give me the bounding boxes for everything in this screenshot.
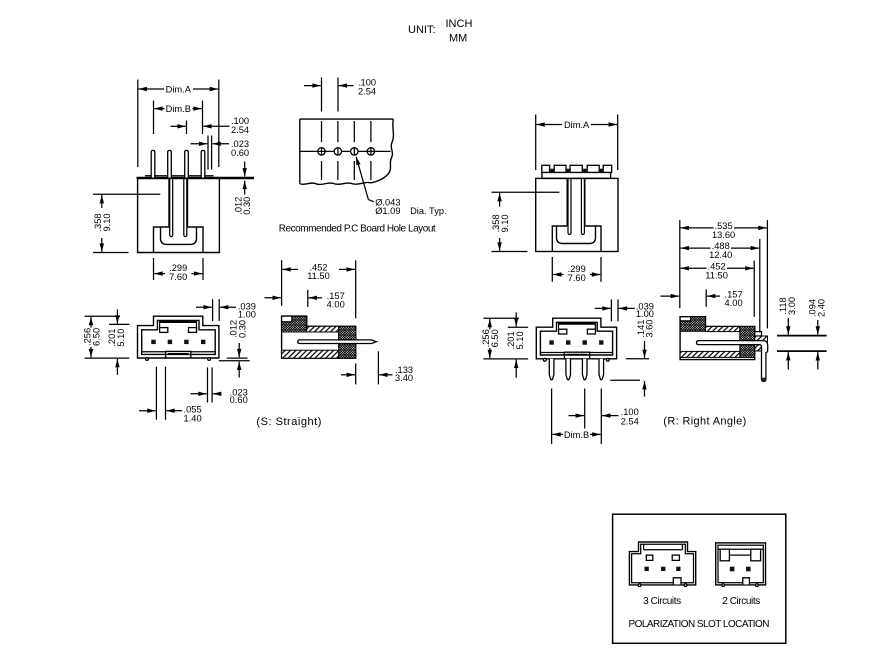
pin top square 4 [600, 169, 603, 173]
inner pin tip right [184, 179, 187, 236]
hole 2 [334, 148, 341, 155]
svg-text:11.50: 11.50 [307, 271, 330, 281]
dimension .012 extension lines right [227, 357, 248, 359]
contact pin 1 (black square) [549, 340, 553, 344]
3 circuits connector outer [629, 542, 695, 585]
svg-text:INCH: INCH [446, 18, 473, 30]
svg-text:UNIT:: UNIT: [408, 24, 436, 36]
bottom wall hatch [282, 350, 339, 358]
S section body outline [282, 316, 356, 358]
dimension .256 6.50 [90, 317, 92, 328]
dimension .256 extension lines [85, 315, 120, 317]
PCB board torn right edge [377, 119, 394, 181]
R side extension line lead outer [766, 220, 768, 328]
contact pin 4 [201, 340, 205, 344]
left block hatch [680, 317, 705, 332]
inner pin tip left [568, 178, 571, 234]
small tab right [755, 332, 762, 336]
left block hatch [282, 316, 307, 332]
PCB board torn bottom edge [300, 181, 377, 184]
3 circuits raised inner lines [644, 549, 683, 551]
svg-text:(R: Right Angle): (R: Right Angle) [663, 416, 746, 428]
3 circuits pin 2 [661, 567, 665, 571]
svg-text:Dim.A: Dim.A [166, 84, 192, 94]
lead centerline 4 [600, 389, 602, 445]
inner slot wall right [584, 178, 586, 226]
top strip [542, 172, 611, 178]
svg-text:3.60: 3.60 [645, 320, 655, 338]
polarization notch tab right [587, 329, 595, 334]
dimension .157 4.00 [309, 297, 323, 299]
svg-text:MM: MM [449, 33, 467, 45]
polarization slot top inner edge [159, 321, 197, 323]
R front view inner outline [540, 322, 612, 355]
3 circuits connector inner [632, 544, 694, 583]
polarization notch tab left [160, 328, 168, 333]
dimension .201 extension line [109, 323, 129, 325]
bottom notch outline [552, 226, 601, 252]
svg-text:Ø1.09: Ø1.09 [375, 206, 400, 216]
dimension .023 0.60 [191, 393, 207, 395]
straight pin [298, 340, 377, 344]
elbow hatch [755, 336, 768, 351]
svg-text:7.60: 7.60 [568, 273, 586, 283]
svg-text:9.10: 9.10 [500, 214, 510, 232]
hole 1 [318, 148, 325, 155]
dimension .039 1.00 [196, 306, 212, 308]
2 circuits cavity middle line [729, 554, 750, 556]
dimension .488 12.40 [681, 247, 711, 249]
lead centerline 3 [584, 389, 586, 429]
dimension .157 extension line [705, 289, 707, 306]
hole centerline vertical 3 [353, 121, 355, 142]
dimension .100 2.54 [569, 415, 585, 417]
inner slot wall right [187, 179, 189, 227]
bottom U-shaped slot [161, 227, 197, 244]
dimension .118 3.00 arrows [787, 318, 789, 335]
dimension .133 extension lines [355, 364, 357, 385]
right block hatch [740, 327, 755, 358]
dimension Dim.B bottom [552, 433, 563, 435]
polarization slot top inner edge [558, 323, 596, 325]
castellation bump 2 [554, 165, 566, 172]
PCB reference line top [777, 335, 827, 337]
dimension Dim.A extension lines [535, 115, 537, 171]
svg-text:1.00: 1.00 [238, 309, 256, 319]
pin 4 [201, 150, 205, 177]
inner pin tip right [581, 178, 584, 234]
svg-text:3.40: 3.40 [395, 373, 413, 383]
2 circuits bump left [722, 584, 725, 587]
contact pin 3 [184, 340, 188, 344]
dimension .256 extension lines [483, 317, 519, 319]
svg-text:Dim.A: Dim.A [564, 120, 590, 130]
dimension .358 extension lines [93, 193, 160, 195]
2 circuits inner top line [718, 548, 763, 550]
dimension Dim.B extension lines [153, 101, 155, 135]
pin 3 [185, 150, 189, 177]
svg-text:0.60: 0.60 [231, 148, 249, 158]
leader line from hole 3 [356, 157, 368, 200]
svg-text:1.00: 1.00 [636, 309, 654, 319]
polarization box frame [613, 514, 786, 643]
bump left [146, 358, 149, 361]
dimension .012 0.30 arrows [244, 162, 246, 177]
svg-text:Dim.B: Dim.B [166, 104, 191, 114]
3 circuits bottom slot [673, 578, 681, 585]
svg-text:5.10: 5.10 [116, 329, 126, 347]
svg-text:Dia. Typ.: Dia. Typ. [410, 206, 447, 216]
3 circuits pin 1 [645, 567, 649, 571]
castellation bump 5 [603, 165, 612, 172]
contact pin 1 (black square) [151, 340, 155, 344]
pin tip cap [762, 378, 766, 382]
inner pin tip left [170, 179, 173, 236]
hole centerline vertical 4 [370, 121, 372, 142]
lead 4 [599, 359, 604, 380]
bottom notch outline [154, 227, 204, 253]
R side extension line left (body edge) [679, 220, 681, 308]
svg-text:1.40: 1.40 [184, 413, 202, 423]
dimension .452 11.50 [681, 267, 707, 269]
dimension .055 1.40 [139, 410, 156, 412]
svg-text:4.00: 4.00 [327, 300, 345, 310]
svg-text:Dim.B: Dim.B [564, 430, 589, 440]
dimension Dim.A [139, 88, 165, 90]
svg-text:4.00: 4.00 [725, 298, 743, 308]
dimension Dim.A extension lines [137, 80, 139, 168]
pin top square 2 [567, 169, 570, 173]
bent pin (right angle) [697, 341, 768, 382]
lead 3 [582, 359, 587, 380]
dimension .535 13.60 [681, 227, 714, 229]
3 circuits polarization tab right [672, 555, 679, 560]
polarization slot side walls [159, 323, 161, 332]
left block white notch [282, 316, 292, 322]
dimension .157 extension line [307, 290, 309, 307]
bottom center tab [166, 351, 191, 358]
contact pin 4 [599, 340, 603, 344]
svg-text:6.50: 6.50 [490, 329, 500, 347]
dimension .157 4.00 [707, 295, 720, 297]
S top view inner outline [142, 320, 216, 354]
connector body front view (S) [138, 178, 220, 253]
svg-text:0.30: 0.30 [242, 197, 252, 215]
dimension .201 extension line [508, 326, 528, 328]
3 circuits pin 3 [676, 567, 680, 571]
2 circuits bottom slot [743, 578, 750, 585]
R section body outline [680, 317, 755, 360]
dimension .299 extension lines [551, 257, 553, 282]
svg-text:6.50: 6.50 [91, 328, 101, 346]
3 circuits bump right [684, 584, 687, 587]
dimension .100 2.54 top [304, 85, 321, 87]
2 circuits bump right [756, 584, 759, 587]
dimension .256 6.50 [489, 319, 491, 330]
svg-text:2 Circuits: 2 Circuits [722, 596, 760, 607]
3 circuits bump left [638, 584, 641, 587]
dimension .023 0.60 [191, 143, 208, 145]
inner slot wall left [566, 178, 568, 226]
bump right [208, 358, 211, 361]
S side section: extension lines .452 [281, 260, 283, 306]
dimension .452 11.50 [282, 268, 298, 270]
dimension .039 1.00 [595, 307, 611, 309]
2 circuits connector outer [716, 543, 766, 585]
contact pin 3 [583, 340, 587, 344]
svg-text:7.60: 7.60 [169, 272, 187, 282]
dimension .100 pitch extension line [186, 121, 188, 135]
connector body back view [536, 178, 618, 251]
polarization slot side walls [558, 325, 560, 334]
dimension .358 9.10 [499, 193, 501, 207]
dimension .299 7.60 [553, 274, 564, 276]
dimension .141 3.60 arrows [644, 341, 646, 358]
lead 1 [549, 359, 554, 380]
svg-text:2.54: 2.54 [231, 125, 249, 135]
hole 4 [367, 148, 374, 155]
lead centerline 1 [551, 389, 553, 445]
dimension .100 extension lines above board [321, 78, 323, 112]
dimension .012 0.30 arrows [238, 343, 240, 357]
R side extension line .488 [759, 239, 761, 334]
dimension .141 extension lines [626, 358, 649, 360]
hole centerline vertical 1 [321, 121, 323, 142]
2 circuits pin 1 [730, 567, 735, 572]
dimension .157 outside arrow [661, 295, 680, 297]
top wall hatch [307, 326, 339, 332]
PCB board outline top [300, 118, 394, 120]
dimension .358 9.10 [101, 195, 103, 208]
bump right [606, 358, 609, 361]
2 circuits polarization tab right [751, 549, 761, 561]
dimension .358 extension lines [492, 191, 560, 193]
bottom wall ledge left [540, 352, 564, 354]
3 circuits polarization tab left [646, 555, 653, 560]
svg-text:2.54: 2.54 [358, 86, 376, 96]
R front view outer outline [536, 318, 616, 359]
hole 3 [351, 148, 358, 155]
contact pin 2 [168, 340, 172, 344]
bottom wall ledge right [590, 352, 613, 354]
dimension .100 2.54 [171, 125, 186, 127]
polarization notch tab left [559, 329, 567, 334]
svg-text:11.50: 11.50 [705, 270, 728, 280]
2 circuits polarization tab left [720, 549, 729, 561]
pin top square 3 [583, 169, 586, 173]
body top surface bold line [137, 177, 255, 179]
castellation bump 1 [542, 165, 550, 172]
S top view outer outline [138, 316, 219, 358]
dimension .299 7.60 [154, 273, 165, 275]
contact pin 2 [566, 340, 570, 344]
dimension .023 extension lines [207, 136, 209, 170]
dimension .039 extension lines [212, 299, 214, 321]
PCB reference line bottom [777, 350, 827, 352]
hole centerline vertical 2 [337, 121, 339, 142]
svg-text:Recommended P.C Board Hole Lay: Recommended P.C Board Hole Layout [279, 224, 436, 235]
right block hatch [339, 326, 356, 358]
2 circuits pin 2 [746, 567, 751, 572]
svg-text:13.60: 13.60 [712, 230, 735, 240]
dimension .039 extension lines [610, 299, 612, 321]
svg-text:12.40: 12.40 [709, 250, 732, 260]
dimension Dim.B [154, 108, 164, 110]
dimension .094 2.40 arrows [817, 320, 819, 335]
dimension .201 5.10 [515, 312, 517, 326]
bottom wall hatch [680, 351, 740, 357]
svg-text:0.60: 0.60 [230, 395, 248, 405]
body top thin upper line [145, 175, 214, 177]
svg-text:5.10: 5.10 [515, 331, 525, 349]
svg-text:POLARIZATION SLOT LOCATION: POLARIZATION SLOT LOCATION [629, 619, 770, 630]
hole row centerline horizontal [300, 150, 391, 152]
polarization notch tab right [189, 328, 197, 333]
2 circuits connector inner [718, 545, 763, 583]
left block white notch [680, 317, 691, 321]
svg-text:0.30: 0.30 [237, 320, 247, 338]
pin 2 [168, 150, 172, 177]
svg-text:2.54: 2.54 [621, 417, 639, 427]
lead extension line thin right [207, 367, 209, 402]
svg-text:9.10: 9.10 [102, 213, 112, 231]
dimension .157 outside arrow left [265, 297, 281, 299]
svg-text:3.00: 3.00 [787, 297, 797, 315]
dimension .133 3.40 [341, 374, 355, 376]
top wall hatch [706, 327, 740, 332]
PCB board outline left [299, 119, 301, 184]
svg-text:3 Circuits: 3 Circuits [643, 596, 681, 607]
bottom center tab [564, 352, 589, 359]
bottom U-shaped slot [557, 226, 596, 244]
bottom wall ledge right [191, 351, 215, 353]
svg-text:(S: Straight): (S: Straight) [256, 416, 321, 428]
inner slot wall left [168, 179, 170, 227]
pin top square 1 [550, 169, 553, 173]
castellation bump 4 [587, 165, 599, 172]
dimension Dim.A [536, 124, 562, 126]
lead 2 [566, 359, 571, 380]
lead extension line wide left [155, 367, 157, 420]
dimension .201 5.10 [116, 310, 118, 324]
castellation bump 3 [570, 165, 582, 172]
bottom wall ledge left [142, 351, 166, 353]
svg-text:2.40: 2.40 [817, 299, 827, 317]
bump left [543, 358, 546, 361]
R side extension line .452 [753, 261, 755, 317]
dimension .299 extension lines [153, 258, 155, 280]
pin 1 (front view, up) [151, 150, 155, 177]
